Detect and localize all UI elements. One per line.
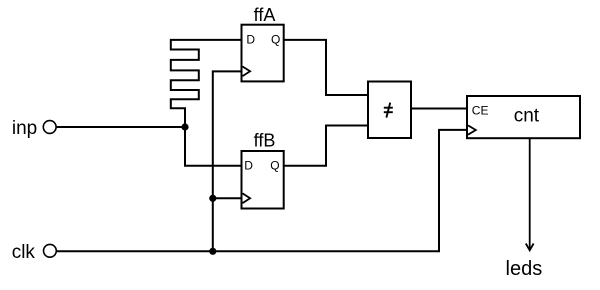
- comparator box: [368, 82, 411, 139]
- node clk junction: [209, 248, 216, 255]
- arrowhead leds: [526, 244, 534, 251]
- terminal clk: [44, 244, 57, 257]
- wire serpentine delay to ffA D: [171, 40, 242, 127]
- svg-text:clk: clk: [12, 242, 36, 263]
- terminal inp: [43, 121, 56, 134]
- flip-flop ffB: [242, 151, 284, 209]
- wire inp to ffB D: [185, 127, 242, 166]
- wire clk to cnt clock: [57, 130, 467, 251]
- wire ffB Q to comparator: [284, 126, 368, 166]
- wire ffB clock: [213, 197, 242, 199]
- wire inp: [57, 126, 185, 128]
- svg-text:ffA: ffA: [254, 5, 276, 25]
- label not-equal: [384, 103, 393, 118]
- svg-text:CE: CE: [472, 104, 489, 118]
- svg-text:ffB: ffB: [254, 131, 276, 151]
- flip-flop ffA: [242, 25, 284, 82]
- node inp junction: [181, 123, 188, 130]
- svg-text:D: D: [244, 159, 253, 173]
- wire comparator to cnt CE: [411, 108, 467, 110]
- counter cnt box: [467, 96, 580, 138]
- wire ffA Q to comparator: [284, 40, 368, 95]
- svg-text:leds: leds: [506, 258, 543, 280]
- clock pin triangle cnt: [468, 125, 476, 134]
- svg-text:cnt: cnt: [514, 105, 540, 126]
- clock pin triangle ffA: [243, 67, 251, 77]
- svg-text:inp: inp: [12, 118, 37, 139]
- wire cnt output to leds: [529, 138, 531, 250]
- svg-text:D: D: [246, 32, 255, 46]
- wire clk riser to ffA clock: [213, 71, 242, 251]
- node ffB clock junction: [209, 195, 216, 202]
- svg-text:Q: Q: [270, 159, 279, 173]
- svg-text:Q: Q: [271, 32, 280, 46]
- clock pin triangle ffB: [243, 193, 251, 203]
